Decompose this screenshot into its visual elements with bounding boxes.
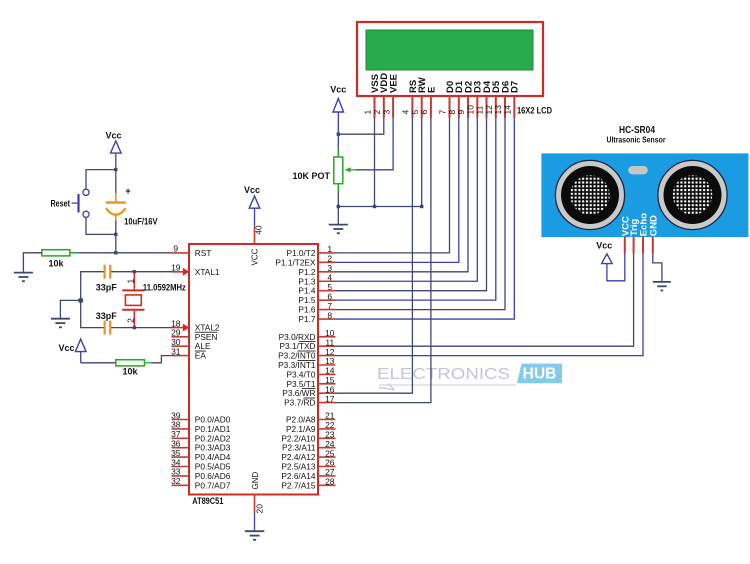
svg-text:33pF: 33pF (96, 283, 118, 293)
svg-text:EA: EA (195, 351, 207, 361)
svg-text:HC-SR04: HC-SR04 (619, 125, 655, 136)
svg-text:P3.7/RD: P3.7/RD (284, 398, 315, 408)
svg-text:Vcc: Vcc (244, 185, 260, 195)
svg-text:RST: RST (195, 248, 212, 258)
svg-text:GND: GND (648, 215, 659, 236)
svg-text:8: 8 (327, 310, 332, 320)
svg-text:AT89C51: AT89C51 (192, 496, 223, 506)
svg-text:3: 3 (381, 110, 391, 115)
svg-text:HUB: HUB (523, 365, 557, 382)
svg-text:XTAL1: XTAL1 (195, 267, 220, 277)
svg-text:E: E (426, 87, 437, 93)
svg-text:40: 40 (254, 225, 264, 235)
svg-text:17: 17 (325, 394, 335, 404)
svg-text:10k: 10k (48, 259, 64, 269)
svg-text:10uF/16V: 10uF/16V (124, 216, 158, 226)
svg-text:19: 19 (171, 263, 181, 273)
svg-text:6: 6 (419, 110, 429, 115)
svg-text:GND: GND (251, 472, 260, 490)
svg-text:Vcc: Vcc (330, 85, 346, 95)
svg-text:D7: D7 (510, 81, 521, 93)
svg-text:2: 2 (126, 318, 136, 323)
svg-text:32: 32 (171, 476, 181, 486)
svg-text:10k: 10k (122, 366, 138, 376)
svg-text:VCC: VCC (251, 248, 260, 265)
svg-text:Ultrasonic Sensor: Ultrasonic Sensor (607, 136, 666, 145)
svg-text:Vcc: Vcc (596, 240, 612, 250)
svg-text:+: + (125, 186, 131, 197)
svg-text:9: 9 (173, 244, 178, 254)
svg-text:31: 31 (171, 346, 181, 356)
svg-text:P0.7/AD7: P0.7/AD7 (195, 480, 231, 490)
svg-text:20: 20 (254, 504, 264, 514)
svg-text:Reset: Reset (51, 199, 71, 209)
svg-text:14: 14 (503, 105, 513, 115)
svg-text:P1.7: P1.7 (298, 314, 315, 324)
svg-text:11.0592MHz: 11.0592MHz (143, 283, 186, 293)
svg-text:Vcc: Vcc (58, 343, 74, 353)
svg-text:33pF: 33pF (96, 311, 118, 321)
svg-text:1: 1 (126, 279, 136, 284)
svg-text:VEE: VEE (389, 74, 400, 93)
svg-text:10K POT: 10K POT (292, 171, 330, 181)
svg-text:28: 28 (325, 477, 335, 487)
svg-text:Vcc: Vcc (105, 130, 121, 140)
svg-text:16X2 LCD: 16X2 LCD (517, 106, 552, 116)
svg-text:ELECTRONICS: ELECTRONICS (377, 366, 510, 383)
svg-text:P2.7/A15: P2.7/A15 (281, 480, 316, 490)
